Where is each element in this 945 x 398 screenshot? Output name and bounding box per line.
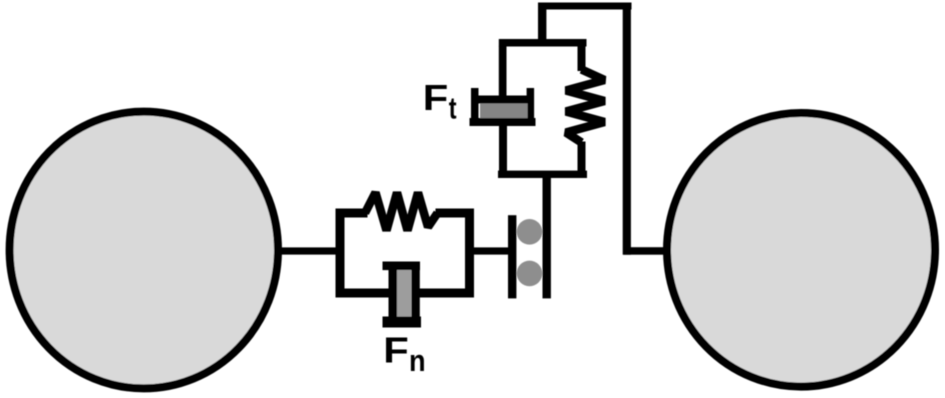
damper Cn piston plate — [389, 265, 398, 322]
normal model box bottom edge (left segment) — [336, 289, 391, 298]
damper Cn cylinder right wall — [411, 265, 420, 322]
damper Cn cylinder bottom cap — [383, 317, 422, 328]
svg-text:t: t — [449, 91, 457, 126]
damper Cn cylinder top cap — [383, 262, 421, 271]
spring Kn (normal spring zigzag) — [365, 193, 438, 231]
wire from normal model to slider plate — [474, 247, 509, 254]
spring Kt (tangential spring zigzag) — [566, 70, 605, 143]
svg-text:n: n — [409, 343, 426, 378]
normal model box top edge (right segment) — [436, 209, 475, 218]
svg-text:F: F — [383, 330, 409, 371]
wire stub into P2 — [624, 247, 669, 255]
normal model box right edge — [465, 209, 474, 298]
slider roller (lower) — [517, 261, 543, 287]
damper Ct cylinder bottom wall — [470, 118, 536, 126]
particle P2 (right disc) — [667, 113, 935, 387]
top wire (horizontal) — [538, 3, 632, 10]
tangential model box right edge (upper segment) — [578, 46, 586, 71]
normal model box bottom edge (right segment) — [419, 289, 474, 298]
slider roller (upper) — [517, 219, 543, 245]
tangential model box right edge (lower segment) — [578, 142, 586, 172]
slider right plate (rod from tangential box) — [543, 171, 551, 298]
damper Cn fluid (gray) — [397, 270, 411, 317]
normal model box left edge — [336, 209, 345, 298]
rod from tangential box top edge to top wire — [538, 9, 546, 40]
wire down to P2 (vertical) — [623, 3, 631, 255]
particle P1 (left disc) — [10, 112, 278, 389]
normal model box top edge (left segment) — [336, 209, 368, 218]
slider left plate — [508, 215, 516, 298]
damper Ct fluid (gray) — [480, 104, 528, 119]
damper Ct piston plate — [476, 96, 531, 104]
svg-text:F: F — [423, 77, 449, 118]
wire from P1 to normal model — [276, 247, 338, 254]
damper Ct cylinder left wall — [471, 88, 479, 126]
damper Ct rod (lower) — [499, 126, 507, 171]
tangential model box bottom edge — [498, 171, 587, 178]
tangential model box top edge — [499, 39, 587, 47]
tangential model box left edge (upper segment) — [499, 46, 507, 96]
damper Ct cylinder right wall — [527, 88, 535, 126]
